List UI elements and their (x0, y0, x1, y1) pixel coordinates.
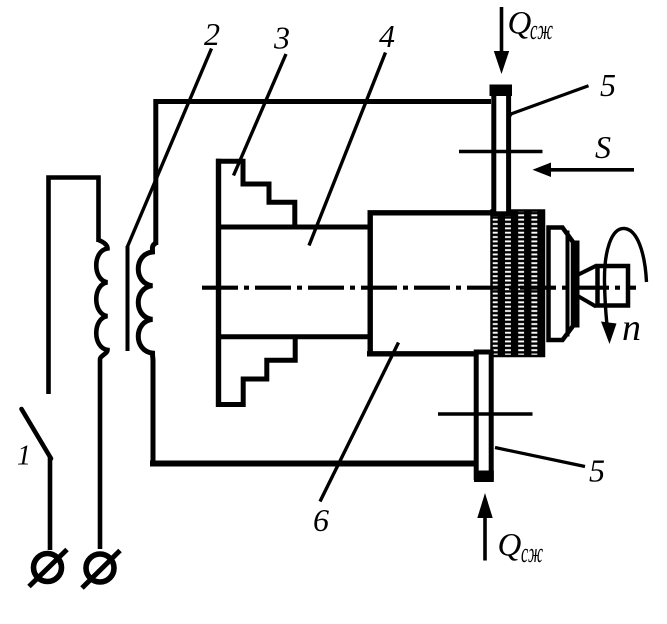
feed arrow S (551, 168, 634, 172)
cylinder 4 workpiece bottom edge (216, 334, 370, 339)
center tip cone (578, 266, 597, 307)
nose face line (574, 241, 579, 328)
switch 1 blade (22, 409, 52, 459)
svg-text:Q: Q (508, 6, 532, 42)
knurled sleeve (492, 211, 545, 357)
leader 5 top (510, 86, 589, 115)
chuck 3 left face (216, 159, 221, 407)
transformer core line (126, 246, 130, 351)
force arrow Q bottom (483, 516, 487, 561)
wire: top hook connecting terminal B wire to switch wire (49, 178, 99, 395)
svg-text:5: 5 (600, 67, 616, 103)
chuck 3 bottom jaw steps (216, 337, 295, 405)
collar ring behind chuck nose (549, 228, 574, 341)
cylinder 6 sleeve outline (370, 213, 491, 352)
leader 6 (320, 343, 399, 502)
centerline axis (202, 286, 636, 290)
svg-text:S: S (595, 129, 611, 165)
leader 2 (128, 49, 212, 247)
svg-text:n: n (622, 307, 641, 349)
center tip block (598, 266, 629, 306)
coil L1 primary winding (left) (96, 240, 107, 549)
svg-text:5: 5 (589, 453, 605, 489)
roller bar 5 top (494, 88, 509, 214)
svg-text:3: 3 (273, 20, 290, 56)
svg-text:2: 2 (204, 16, 220, 52)
roller bar 5 bottom (476, 352, 491, 478)
svg-text:Q: Q (498, 528, 522, 564)
box bottom edge (150, 461, 475, 467)
bottom contact tick (438, 412, 533, 416)
box: inductor housing top and left edges (156, 102, 491, 246)
rotation arrow n (604, 228, 646, 323)
wire: switch to terminal A (48, 457, 53, 550)
leader 3 (234, 54, 287, 176)
leader 4 (309, 53, 386, 246)
chuck 3 top jaw steps (216, 161, 295, 227)
terminal A (34, 554, 62, 582)
terminal B (86, 554, 114, 582)
svg-text:сж: сж (521, 538, 543, 569)
svg-text:4: 4 (379, 18, 395, 54)
top contact tick (459, 150, 543, 154)
svg-text:1: 1 (17, 441, 31, 472)
leader 5 bottom (495, 448, 585, 467)
svg-text:сж: сж (530, 15, 553, 46)
force arrow Q top (500, 7, 504, 53)
coil 2 secondary winding on box edge (138, 243, 156, 462)
cylinder 6 bottom edge (367, 351, 492, 356)
cylinder 4 workpiece top edge (216, 225, 370, 230)
svg-text:6: 6 (313, 502, 329, 538)
